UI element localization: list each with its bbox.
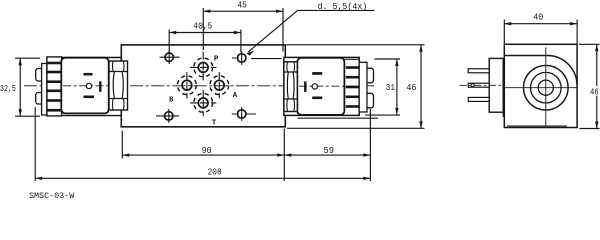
side pin middle (468, 83, 489, 87)
left stack bars (47, 62, 61, 112)
mounting hole top-right (232, 51, 282, 65)
side connector bottom step (503, 112, 504, 116)
right solenoid bottom flange line (298, 117, 379, 119)
leader d.5,5 (247, 10, 375, 55)
mounting hole top-left (160, 50, 180, 64)
label 46 side (589, 86, 600, 96)
left terminal tick (99, 81, 101, 92)
left solenoid tab lower (36, 93, 42, 105)
dim 59 (284, 109, 370, 181)
dim 32,5 (15, 58, 40, 116)
right terminal circle (312, 84, 317, 89)
right connector centerline (299, 85, 344, 87)
svg-text:d. 5,5(4x): d. 5,5(4x) (318, 2, 368, 13)
side connector body (489, 58, 503, 112)
right terminal top bar (312, 72, 322, 75)
left terminal circle (86, 83, 91, 88)
svg-text:T: T (212, 120, 217, 128)
left terminal bottom bar (84, 96, 95, 99)
dim 45 (203, 8, 283, 52)
svg-text:31: 31 (386, 82, 395, 93)
dim 40 (504, 20, 577, 44)
svg-text:32,5: 32,5 (0, 84, 16, 94)
dim 40,5 (169, 30, 241, 53)
svg-text:SMSC-03-W: SMSC-03-W (29, 191, 75, 201)
dim 208 (35, 107, 370, 181)
dim 90 (122, 129, 284, 182)
port B (178, 72, 197, 98)
right tab upper (367, 68, 374, 83)
right stack top line (344, 58, 359, 60)
left solenoid tab upper (36, 69, 42, 82)
side pin top (468, 69, 489, 73)
left coil bottom line (61, 115, 121, 117)
svg-text:P: P (214, 55, 219, 63)
side view crosshair (504, 48, 577, 128)
left coil block outline (47, 57, 62, 116)
svg-text:46: 46 (590, 87, 599, 98)
port T (190, 90, 216, 116)
svg-text:46: 46 (406, 83, 416, 94)
left end cap (42, 64, 47, 116)
right coil block outline (284, 57, 359, 115)
left connector centerline (63, 85, 108, 87)
side view circles (524, 65, 569, 110)
left coil top line (61, 57, 121, 59)
port A (210, 72, 229, 98)
left connector box (61, 58, 108, 114)
side view square (504, 44, 577, 127)
svg-text:40,5: 40,5 (193, 21, 212, 32)
svg-text:90: 90 (202, 146, 212, 157)
svg-text:59: 59 (323, 145, 334, 156)
valve body (121, 45, 285, 127)
mounting hole bottom-left (156, 109, 179, 123)
side pin centerline (459, 84, 501, 86)
main centerline front view (24, 85, 374, 87)
side pin bottom (468, 97, 489, 101)
dim 46 front (286, 45, 424, 129)
svg-text:40: 40 (533, 12, 543, 23)
right connector box (297, 58, 344, 115)
left nut (109, 61, 128, 110)
side view inner bottom line (507, 125, 567, 127)
right terminal tick (304, 81, 306, 92)
dim 31 (365, 59, 400, 115)
mounting hole bottom-right (232, 107, 256, 121)
svg-text:B: B (169, 96, 174, 104)
right stack bars (346, 66, 359, 108)
port P (190, 52, 216, 81)
side view top line with corner fillet (504, 56, 577, 86)
svg-text:45: 45 (237, 0, 246, 11)
right nut (284, 62, 297, 112)
right tab lower (367, 93, 374, 108)
right end cap (359, 62, 367, 112)
side pin dot (471, 84, 474, 87)
right terminal bottom bar (312, 97, 322, 100)
dim 46 side (579, 44, 600, 128)
left terminal top bar (84, 73, 93, 76)
svg-text:208: 208 (208, 167, 222, 178)
svg-text:A: A (233, 92, 238, 100)
